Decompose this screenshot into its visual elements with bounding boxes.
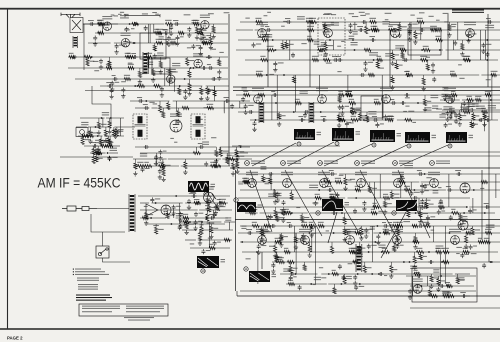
label bbox=[281, 115, 285, 116]
ground bbox=[308, 253, 312, 258]
capacitor C116 bbox=[423, 184, 427, 189]
wire bbox=[145, 210, 147, 212]
capacitor C114 bbox=[456, 172, 461, 176]
label bbox=[206, 250, 210, 251]
component value label bbox=[350, 179, 355, 180]
ground bbox=[195, 35, 199, 40]
ground bbox=[175, 41, 179, 46]
resistor R77 bbox=[227, 157, 235, 160]
ground bbox=[310, 233, 314, 238]
resistor R98 bbox=[373, 28, 379, 31]
label bbox=[176, 206, 181, 207]
capacitor C30 bbox=[207, 55, 212, 59]
component value label bbox=[378, 211, 383, 212]
rail wire bbox=[220, 146, 250, 148]
ground bbox=[445, 117, 449, 122]
capacitor C68 bbox=[333, 58, 338, 62]
label bbox=[318, 222, 324, 223]
resistor R226 bbox=[309, 224, 316, 227]
capacitor C11 bbox=[169, 25, 173, 30]
capacitor C15 bbox=[176, 35, 180, 40]
ground bbox=[337, 123, 341, 128]
scope value label bbox=[419, 203, 424, 206]
component value label bbox=[208, 238, 212, 239]
resistor R270 bbox=[206, 198, 209, 205]
capacitor C70 bbox=[370, 38, 375, 42]
resistor R159 bbox=[295, 101, 302, 104]
label bbox=[443, 248, 449, 249]
rail wire bbox=[238, 181, 419, 183]
label bbox=[128, 64, 134, 65]
bold code line bbox=[76, 300, 106, 301]
capacitor C28 bbox=[121, 88, 125, 93]
label bbox=[399, 178, 405, 179]
label bbox=[462, 219, 468, 222]
label bbox=[146, 53, 152, 54]
tube V25 bbox=[451, 236, 460, 245]
capacitor C143 bbox=[384, 229, 388, 234]
label bbox=[436, 246, 444, 249]
capacitor C65 bbox=[487, 20, 492, 24]
resistor R204 bbox=[294, 236, 297, 243]
bottom bus bbox=[237, 295, 500, 297]
capacitor C53 bbox=[319, 48, 324, 52]
label bbox=[180, 36, 184, 37]
junction node bbox=[219, 165, 221, 167]
ground bbox=[458, 223, 462, 228]
connector wire bbox=[491, 75, 493, 120]
resistor R30 bbox=[138, 71, 141, 78]
component value label bbox=[204, 107, 210, 108]
label bbox=[484, 116, 489, 117]
connector wire bbox=[228, 222, 230, 230]
wire bbox=[301, 213, 303, 215]
RF input box bbox=[70, 18, 83, 33]
capacitor C85 bbox=[485, 118, 490, 122]
AM IF transformer T2 bbox=[191, 114, 205, 139]
wire bbox=[427, 60, 429, 64]
tube V10 bbox=[466, 29, 475, 38]
label bbox=[165, 20, 172, 21]
ground bbox=[187, 91, 191, 96]
tube V29 bbox=[458, 220, 468, 230]
junction node bbox=[373, 59, 375, 61]
wire bbox=[167, 101, 169, 103]
rail wire bbox=[168, 23, 228, 25]
label bbox=[110, 148, 118, 151]
label bbox=[306, 18, 313, 19]
ground bbox=[481, 49, 485, 54]
resistor R21 bbox=[188, 83, 191, 91]
ground bbox=[273, 200, 277, 205]
ground bbox=[353, 281, 357, 286]
capacitor C12 bbox=[174, 22, 179, 26]
resistor R272 bbox=[145, 212, 148, 219]
junction node bbox=[150, 217, 152, 219]
resistor R231 bbox=[419, 254, 422, 260]
resistor R128 bbox=[470, 122, 473, 128]
label bbox=[278, 62, 284, 63]
wire bbox=[139, 68, 141, 71]
label bbox=[348, 180, 352, 181]
ground bbox=[454, 119, 458, 124]
label bbox=[170, 39, 176, 40]
resistor R3 bbox=[178, 31, 184, 34]
rail wire bbox=[133, 165, 179, 167]
rail wire bbox=[446, 49, 500, 51]
wire bbox=[457, 274, 459, 277]
label bbox=[102, 112, 109, 115]
resistor R191 bbox=[249, 211, 256, 214]
resistor R14 bbox=[131, 22, 138, 25]
label bbox=[404, 165, 413, 168]
resistor R281 bbox=[442, 294, 449, 297]
ground bbox=[376, 240, 380, 245]
scope callout line bbox=[362, 145, 407, 166]
scope value label bbox=[258, 205, 263, 208]
junction node bbox=[175, 195, 177, 197]
rail wire bbox=[222, 158, 252, 160]
signal path diagonal bbox=[398, 170, 430, 238]
ground bbox=[420, 205, 424, 210]
junction node bbox=[379, 232, 381, 234]
label bbox=[256, 44, 261, 45]
wire bbox=[424, 95, 426, 99]
capacitor C1 bbox=[89, 22, 94, 26]
junction node bbox=[310, 283, 312, 285]
rail wire bbox=[138, 195, 230, 197]
label bbox=[183, 218, 188, 219]
resistor R87 bbox=[398, 24, 401, 31]
wire bbox=[167, 210, 169, 213]
resistor R163 bbox=[406, 73, 413, 76]
resistor R20 bbox=[152, 69, 155, 76]
capacitor C109 bbox=[426, 215, 430, 220]
ground bbox=[168, 78, 172, 83]
label bbox=[97, 20, 102, 21]
junction node bbox=[385, 119, 387, 121]
label bbox=[369, 52, 378, 55]
bottom section top rail bbox=[235, 219, 500, 221]
label bbox=[120, 15, 129, 18]
capacitor C135 bbox=[338, 264, 342, 269]
ground bbox=[110, 87, 114, 92]
label bbox=[196, 45, 201, 46]
ground bbox=[413, 245, 417, 250]
label bbox=[412, 24, 417, 25]
top row label bbox=[114, 15, 119, 16]
scope photo W2 bbox=[332, 128, 354, 141]
junction node bbox=[256, 251, 258, 253]
wire bbox=[116, 127, 118, 129]
ground bbox=[324, 52, 328, 57]
label bbox=[300, 91, 308, 94]
capacitor C62 bbox=[323, 24, 327, 29]
capacitor C89 bbox=[375, 122, 379, 127]
capacitor C14 bbox=[191, 44, 195, 49]
wire bbox=[338, 112, 340, 114]
tube type label bbox=[256, 22, 268, 25]
component value label bbox=[207, 200, 211, 201]
resistor R92 bbox=[423, 48, 431, 51]
label bbox=[485, 91, 491, 92]
label bbox=[309, 18, 316, 19]
label bbox=[447, 292, 452, 293]
label bbox=[192, 20, 200, 23]
component value label bbox=[471, 253, 477, 254]
ground bbox=[482, 122, 486, 127]
wire bbox=[420, 252, 422, 254]
rail wire bbox=[240, 102, 500, 104]
ground bbox=[183, 95, 187, 100]
wire bbox=[465, 233, 467, 236]
resistor R96 bbox=[364, 48, 371, 51]
label bbox=[189, 224, 195, 225]
resistor R68 bbox=[182, 106, 189, 109]
resistor R237 bbox=[318, 224, 325, 227]
ground bbox=[158, 175, 162, 180]
resistor R276 bbox=[198, 232, 201, 240]
tube V13 bbox=[382, 95, 391, 104]
rail wire bbox=[145, 223, 225, 225]
label bbox=[399, 65, 403, 66]
label bbox=[463, 56, 470, 57]
tube V27 bbox=[161, 205, 171, 215]
ground bbox=[205, 207, 209, 212]
resistor R16 bbox=[153, 45, 156, 51]
resistor R32 bbox=[218, 59, 221, 66]
label bbox=[335, 178, 341, 179]
wire bbox=[178, 86, 180, 88]
label bbox=[423, 46, 429, 47]
ground bbox=[273, 67, 277, 72]
label bbox=[193, 20, 198, 21]
resistor R259 bbox=[264, 224, 270, 227]
junction node bbox=[381, 251, 383, 253]
capacitor C36 bbox=[107, 156, 111, 161]
resistor R221 bbox=[278, 260, 285, 263]
label bbox=[429, 204, 434, 205]
border frame bbox=[7, 9, 9, 329]
wire bbox=[262, 174, 264, 176]
wire bbox=[236, 159, 238, 161]
resistor R17 bbox=[205, 41, 212, 44]
resistor R7 bbox=[193, 22, 200, 25]
ground bbox=[214, 211, 218, 216]
rail wire bbox=[260, 212, 308, 214]
label bbox=[314, 41, 320, 44]
label bbox=[417, 33, 422, 34]
resistor R131 bbox=[423, 99, 426, 106]
ground bbox=[418, 220, 422, 225]
label bbox=[484, 238, 490, 239]
test point TP12 bbox=[245, 161, 250, 166]
ground bbox=[413, 265, 417, 270]
connector wire bbox=[444, 226, 446, 284]
label bbox=[486, 18, 491, 19]
capacitor C112 bbox=[420, 199, 424, 204]
svg-text:14: 14 bbox=[318, 161, 322, 165]
stage label bbox=[287, 161, 301, 164]
top row label bbox=[224, 12, 230, 13]
wire bbox=[419, 207, 421, 211]
label bbox=[98, 158, 102, 159]
power supply box bbox=[412, 268, 477, 302]
rail wire bbox=[386, 251, 498, 253]
junction node bbox=[171, 223, 173, 225]
capacitor C67 bbox=[358, 28, 363, 32]
resistor R189 bbox=[425, 202, 428, 209]
resistor R169 bbox=[335, 180, 342, 183]
label bbox=[423, 222, 429, 223]
vertical feed wire bbox=[488, 92, 490, 262]
label bbox=[309, 185, 318, 188]
label bbox=[328, 45, 334, 46]
label bbox=[125, 53, 131, 54]
wire bbox=[364, 262, 366, 265]
rail wire bbox=[250, 119, 393, 121]
label bbox=[223, 151, 229, 152]
label bbox=[115, 82, 120, 83]
junction node bbox=[346, 94, 348, 96]
label bbox=[356, 248, 362, 249]
label bbox=[172, 63, 180, 66]
resistor R116 bbox=[306, 20, 313, 23]
connector wire bbox=[426, 276, 428, 286]
connector wire bbox=[294, 75, 296, 112]
resistor R233 bbox=[301, 224, 308, 227]
junction node bbox=[466, 206, 468, 208]
connector wire bbox=[219, 147, 221, 153]
label bbox=[486, 44, 492, 45]
junction node bbox=[363, 119, 365, 121]
resistor R273 bbox=[183, 220, 190, 223]
capacitor C139 bbox=[310, 227, 314, 232]
scope value label bbox=[345, 202, 350, 205]
resistor R201 bbox=[466, 231, 472, 234]
resistor R9 bbox=[197, 31, 203, 34]
top row label bbox=[267, 12, 271, 13]
capacitor C99 bbox=[353, 209, 357, 214]
tube type label bbox=[322, 22, 334, 25]
resistor R185 bbox=[419, 211, 422, 217]
component value label bbox=[405, 106, 409, 107]
label bbox=[416, 248, 422, 249]
capacitor C137 bbox=[288, 224, 293, 228]
label bbox=[347, 219, 353, 220]
test point TP8 bbox=[316, 211, 320, 215]
wire bbox=[160, 57, 162, 61]
junction node bbox=[266, 74, 268, 76]
wire bbox=[89, 127, 91, 130]
capacitor C40 bbox=[225, 99, 230, 103]
tube V8 bbox=[324, 29, 333, 38]
label bbox=[374, 99, 379, 100]
label bbox=[225, 217, 231, 220]
label bbox=[349, 36, 355, 39]
label bbox=[323, 56, 327, 57]
label bbox=[159, 36, 164, 39]
label bbox=[430, 216, 435, 217]
ground bbox=[359, 236, 363, 241]
ground bbox=[281, 218, 285, 223]
resistor R100 bbox=[400, 48, 407, 51]
junction node bbox=[97, 135, 99, 137]
resistor R283 bbox=[437, 278, 440, 285]
resistor R10 bbox=[199, 28, 202, 35]
junction node bbox=[133, 42, 135, 44]
ground bbox=[276, 198, 280, 203]
resistor R251 bbox=[333, 287, 336, 293]
ground bbox=[362, 207, 366, 212]
wire bbox=[226, 153, 228, 157]
rail wire bbox=[76, 126, 87, 128]
label bbox=[265, 231, 271, 232]
wire bbox=[324, 22, 326, 23]
resistor R104 bbox=[255, 20, 263, 23]
rail wire bbox=[255, 29, 433, 31]
capacitor C100 bbox=[331, 211, 336, 215]
top row label bbox=[410, 15, 414, 16]
component value label bbox=[212, 49, 216, 50]
connector wire bbox=[169, 79, 171, 86]
junction node bbox=[134, 42, 136, 44]
label bbox=[172, 71, 178, 72]
label bbox=[468, 106, 472, 107]
label bbox=[206, 35, 210, 36]
label bbox=[452, 26, 456, 27]
wire bbox=[369, 182, 371, 186]
label bbox=[197, 29, 203, 30]
label bbox=[486, 225, 495, 228]
resistor R80 bbox=[213, 164, 221, 167]
junction node bbox=[357, 273, 359, 275]
wire bbox=[407, 207, 409, 210]
capacitor C64 bbox=[431, 63, 435, 68]
capacitor C152 bbox=[271, 263, 275, 268]
junction node bbox=[193, 67, 195, 69]
scope photo W3 bbox=[370, 130, 395, 142]
ground bbox=[273, 254, 277, 259]
label bbox=[264, 34, 272, 37]
ground bbox=[176, 119, 180, 124]
top row label bbox=[155, 14, 159, 15]
tube V18 bbox=[357, 179, 366, 188]
resistor R48 bbox=[95, 151, 102, 154]
resistor R67 bbox=[162, 111, 165, 118]
resistor R113 bbox=[324, 23, 327, 30]
label bbox=[362, 115, 367, 116]
rail wire bbox=[106, 117, 124, 119]
ground bbox=[364, 234, 368, 239]
copyright caption bbox=[128, 320, 150, 321]
component value label bbox=[326, 63, 332, 64]
label bbox=[451, 209, 455, 210]
resistor R88 bbox=[435, 28, 442, 31]
label bbox=[148, 214, 153, 215]
wire bbox=[100, 136, 102, 139]
rail wire bbox=[449, 189, 500, 191]
label bbox=[372, 188, 377, 189]
capacitor C56 bbox=[364, 61, 368, 66]
wire bbox=[472, 112, 474, 113]
label bbox=[119, 131, 123, 132]
rail wire bbox=[168, 158, 221, 160]
stage shield box bbox=[361, 96, 383, 118]
resistor R76 bbox=[162, 169, 165, 177]
component value label bbox=[93, 61, 99, 62]
connector wire bbox=[418, 198, 420, 213]
